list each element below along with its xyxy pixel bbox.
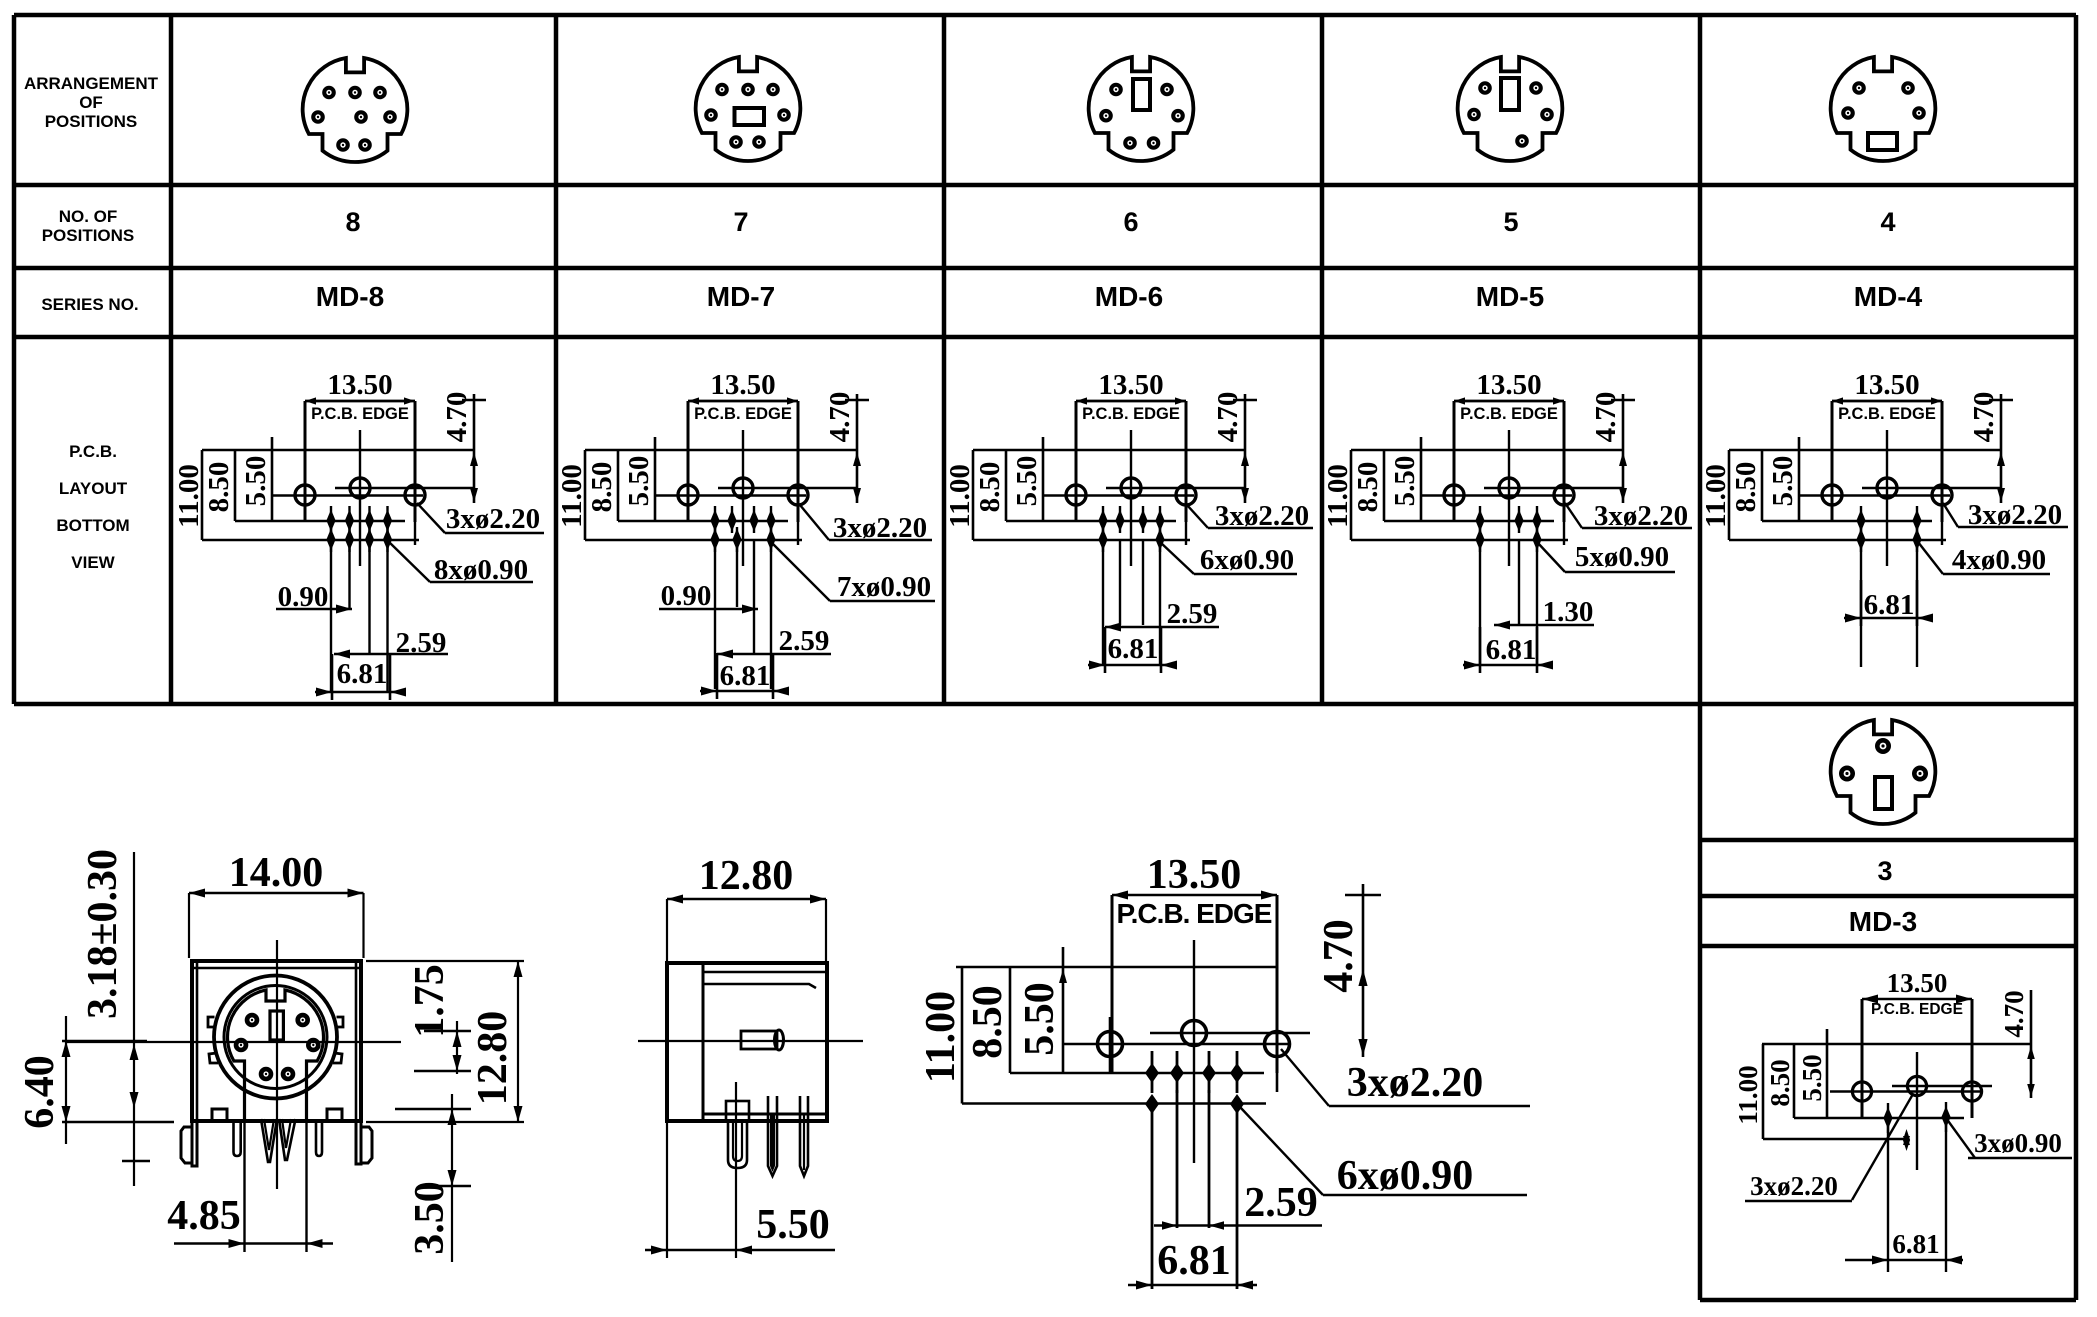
enlarged PCB layout: 6xØ0.90 label (1240, 1107, 1527, 1199)
MD-8 PCB layout: 4.70 dimension (441, 392, 486, 503)
svg-text:4.70: 4.70 (824, 392, 856, 443)
MD-6 PCB layout: P.C.B. EDGE box (1076, 401, 1186, 522)
MD-6 connector face (6-pin, vertical key) (1089, 57, 1194, 161)
MD-8 PCB layout: center axis (359, 430, 361, 566)
MD-5 PCB layout: center axis (1508, 430, 1510, 566)
MD-8 PCB layout: 8xØ0.90 label (389, 542, 533, 586)
MD-7 PCB layout: 3x mounting holes (656, 476, 857, 545)
MD-5 PCB layout: 1.30 dimension (1494, 596, 1594, 630)
no. of positions values (345, 207, 1895, 237)
enlarged PCB layout: 2.59 dimension (1154, 1180, 1322, 1230)
svg-text:8: 8 (345, 207, 360, 237)
svg-text:6.81: 6.81 (1486, 634, 1537, 666)
MD-5 PCB layout: top reference line (1351, 449, 1623, 452)
side view: axis line (638, 1040, 863, 1042)
MD-8 PCB layout: 13.50 dimension (305, 369, 415, 405)
front view: left solder pin (234, 1121, 241, 1156)
enlarged PCB layout: 6.81 dimension (1128, 1238, 1257, 1290)
MD-8 PCB layout: 11.00 dimension (173, 450, 419, 540)
svg-text:11.00: 11.00 (944, 464, 976, 528)
MD-4 PCB layout: 8.50 dimension (1730, 450, 1932, 521)
svg-text:12.80: 12.80 (470, 1011, 516, 1106)
svg-text:3xø0.90: 3xø0.90 (1974, 1128, 2062, 1158)
front view: center V pins (261, 1119, 296, 1162)
MD-5 PCB layout: 4.70 dimension (1590, 392, 1635, 503)
front view: 4.85 dimension (167, 1121, 333, 1252)
MD-6 PCB layout: 4.70 dimension (1212, 392, 1257, 503)
svg-text:6.81: 6.81 (720, 660, 771, 692)
MD-4 connector face (4-pin, bottom key slot) (1831, 57, 1936, 161)
front view: shield outer circle (214, 976, 337, 1099)
svg-text:P.C.B. EDGE: P.C.B. EDGE (1117, 898, 1272, 929)
MD-7 PCB layout: P.C.B. EDGE box (688, 401, 798, 522)
front view: bottom edge stubs (212, 1109, 342, 1121)
MD-5 PCB layout: 13.50 dimension (1454, 369, 1564, 405)
MD-6 PCB layout: 3x mounting holes (1044, 476, 1245, 545)
svg-text:11.00: 11.00 (1733, 1065, 1763, 1124)
svg-text:13.50: 13.50 (1887, 968, 1948, 998)
MD-6 PCB layout: top reference line (973, 449, 1245, 452)
svg-text:13.50: 13.50 (1147, 852, 1242, 898)
svg-text:2.59: 2.59 (779, 625, 830, 657)
MD-3 PCB layout: 13.50 dimension (1862, 968, 1972, 1004)
MD-3 PCB layout: pin holes (1883, 1102, 1950, 1272)
svg-text:MD-7: MD-7 (707, 281, 775, 312)
svg-text:3.18±0.30: 3.18±0.30 (80, 849, 126, 1019)
svg-text:POSITIONS: POSITIONS (45, 112, 138, 131)
svg-text:4.70: 4.70 (1968, 392, 2000, 443)
svg-text:13.50: 13.50 (327, 369, 392, 401)
MD-8 PCB layout: 0.90 dimension (276, 581, 352, 614)
front view: 12.80 dimension (366, 961, 524, 1122)
svg-text:8.50: 8.50 (974, 462, 1006, 513)
MD-6 PCB layout: center axis (1130, 430, 1132, 566)
svg-text:6xø0.90: 6xø0.90 (1337, 1153, 1474, 1199)
MD-5 PCB layout: 8.50 dimension (1352, 450, 1554, 521)
svg-text:MD-6: MD-6 (1095, 281, 1163, 312)
MD-6 PCB layout: 6.81 dimension (1088, 627, 1177, 673)
MD-8 PCB layout: pin holes (326, 506, 392, 692)
MD-5 PCB layout: 5xØ0.90 label (1537, 541, 1675, 573)
svg-text:12.80: 12.80 (699, 853, 794, 899)
MD-7 PCB layout: 11.00 dimension (556, 450, 802, 540)
svg-text:SERIES NO.: SERIES NO. (41, 295, 138, 314)
svg-text:3xø2.20: 3xø2.20 (1347, 1060, 1484, 1106)
svg-text:8.50: 8.50 (1765, 1059, 1795, 1106)
svg-text:6.81: 6.81 (1157, 1238, 1231, 1284)
svg-text:3: 3 (1877, 856, 1892, 886)
series no. values (316, 281, 1923, 312)
enlarged PCB layout: 3xØ2.20 label (1281, 1049, 1530, 1106)
front view: left mounting foot (181, 1121, 197, 1166)
svg-text:7: 7 (733, 207, 748, 237)
svg-text:8.50: 8.50 (203, 462, 235, 513)
MD-8 PCB layout: P.C.B. EDGE box (305, 401, 415, 522)
MD-3 PCB layout: 3xØ0.90 label (1946, 1118, 2072, 1158)
svg-text:8.50: 8.50 (586, 462, 618, 513)
MD-5 PCB layout: 3xØ2.20 label (1565, 500, 1692, 532)
MD-3 PCB layout: 5.50 dimension (1797, 1029, 1827, 1118)
svg-text:4.70: 4.70 (441, 392, 473, 443)
MD-6 PCB layout: pin holes (1098, 506, 1164, 665)
svg-text:5.50: 5.50 (1389, 456, 1421, 507)
MD-5 PCB layout: 6.81 dimension (1463, 627, 1553, 673)
MD-5 PCB layout: 3x mounting holes (1422, 476, 1623, 545)
svg-text:4.85: 4.85 (167, 1193, 241, 1239)
svg-text:ARRANGEMENT: ARRANGEMENT (24, 74, 159, 93)
header label P.C.B. LAYOUT BOTTOM VIEW (56, 442, 129, 572)
svg-text:6: 6 (1123, 207, 1138, 237)
svg-text:MD-3: MD-3 (1849, 906, 1917, 937)
svg-text:14.00: 14.00 (229, 850, 324, 896)
svg-text:5.50: 5.50 (1017, 982, 1063, 1056)
header label NO. OF POSITIONS (42, 207, 135, 245)
front view: right mounting foot (356, 1121, 372, 1164)
MD-8 connector face (8-pin) (303, 58, 408, 162)
MD-7 PCB layout: 2.59 dimension (717, 625, 831, 659)
MD-4 PCB layout: 5.50 dimension (1767, 437, 1799, 521)
svg-text:MD-5: MD-5 (1476, 281, 1544, 312)
enlarged PCB layout: 13.50 dimension (1112, 852, 1277, 900)
MD-7 PCB layout: 0.90 dimension (659, 580, 758, 614)
MD-7 PCB layout: center axis (742, 430, 744, 566)
front view: center axis cross (66, 940, 401, 1189)
header label ARRANGEMENT OF POSITIONS (24, 74, 159, 131)
svg-text:P.C.B. EDGE: P.C.B. EDGE (311, 405, 409, 423)
side view: solder pins (768, 1096, 808, 1176)
front view: connector body outline (192, 961, 361, 1121)
svg-text:4.70: 4.70 (1999, 990, 2029, 1037)
MD-7 PCB layout: 4.70 dimension (824, 392, 869, 503)
svg-text:6.81: 6.81 (1864, 589, 1915, 621)
svg-text:5.50: 5.50 (756, 1202, 830, 1248)
front view: shield inner circle (224, 986, 327, 1089)
MD-3 PCB layout: 3xØ2.20 label (1745, 1094, 1913, 1201)
MD-3 PCB layout: P.C.B. EDGE box (1862, 999, 1972, 1118)
svg-text:P.C.B.: P.C.B. (69, 442, 117, 461)
MD-4 PCB layout: pin holes (1856, 506, 1921, 667)
svg-text:8.50: 8.50 (1730, 462, 1762, 513)
svg-text:5.50: 5.50 (1011, 456, 1043, 507)
side view: body outline (667, 963, 827, 1121)
svg-text:LAYOUT: LAYOUT (59, 479, 128, 498)
MD-4 PCB layout: 3x mounting holes (1800, 476, 2001, 545)
MD-3 no. of positions value 3 (1877, 856, 1892, 886)
front view: 14.00 dimension (189, 850, 364, 958)
svg-text:6.81: 6.81 (337, 658, 388, 690)
svg-text:6.40: 6.40 (17, 1055, 63, 1129)
svg-text:6xø0.90: 6xø0.90 (1200, 544, 1294, 576)
MD-6 PCB layout: 2.59 dimension (1105, 598, 1219, 632)
MD-7 PCB layout: 7xØ0.90 label (771, 542, 935, 603)
front view: right solder pin (316, 1121, 322, 1156)
svg-text:P.C.B. EDGE: P.C.B. EDGE (1871, 1001, 1963, 1018)
svg-text:BOTTOM: BOTTOM (56, 516, 129, 535)
svg-text:13.50: 13.50 (710, 369, 775, 401)
MD-5 PCB layout: P.C.B. EDGE box (1454, 401, 1564, 522)
svg-text:4: 4 (1880, 207, 1895, 237)
svg-text:4xø0.90: 4xø0.90 (1952, 544, 2046, 576)
svg-text:P.C.B. EDGE: P.C.B. EDGE (1460, 405, 1558, 423)
enlarged PCB layout: pin holes (1145, 1051, 1244, 1289)
svg-text:4.70: 4.70 (1212, 392, 1244, 443)
svg-text:3.50: 3.50 (407, 1181, 453, 1255)
front view: mini-DIN face profile (227, 990, 323, 1119)
MD-7 PCB layout: 8.50 dimension (586, 450, 788, 521)
svg-text:1.75: 1.75 (407, 964, 453, 1038)
MD-5 PCB layout: 11.00 dimension (1322, 450, 1568, 540)
svg-text:MD-4: MD-4 (1854, 281, 1923, 312)
MD-5 PCB layout: 5.50 dimension (1389, 437, 1421, 521)
MD-6 PCB layout: 6xØ0.90 label (1160, 542, 1297, 576)
enlarged PCB layout: 8.50 dimension (965, 967, 1264, 1073)
MD-4 PCB layout: 11.00 dimension (1700, 450, 1946, 540)
svg-text:OF: OF (79, 93, 103, 112)
svg-text:13.50: 13.50 (1476, 369, 1541, 401)
MD-4 PCB layout: 6.81 dimension (1844, 580, 1933, 626)
svg-text:2.59: 2.59 (1244, 1180, 1318, 1226)
svg-text:13.50: 13.50 (1098, 369, 1163, 401)
MD-4 PCB layout: 4xØ0.90 label (1918, 542, 2050, 576)
enlarged PCB layout: 4.70 dimension (1316, 884, 1381, 1057)
MD-8 PCB layout: 5.50 dimension (240, 437, 272, 521)
svg-text:11.00: 11.00 (173, 464, 205, 528)
svg-text:POSITIONS: POSITIONS (42, 226, 135, 245)
svg-text:11.00: 11.00 (1700, 464, 1732, 528)
svg-text:2.59: 2.59 (1167, 598, 1218, 630)
front view: 3.50 dimension (395, 1094, 471, 1262)
MD-7 PCB layout: 3xØ2.20 label (800, 505, 932, 544)
svg-text:6.81: 6.81 (1108, 633, 1159, 665)
MD-3 PCB layout: 3x mounting holes (1830, 1074, 1992, 1110)
MD-7 PCB layout: pin holes (710, 506, 775, 689)
MD-5 PCB layout: pin holes (1475, 506, 1541, 665)
side view: shield pin (726, 1082, 749, 1188)
MD-7 connector face (7-pin, center key slot) (696, 57, 801, 161)
MD-4 PCB layout: top reference line (1729, 449, 2001, 452)
svg-text:6.81: 6.81 (1892, 1229, 1939, 1259)
svg-text:11.00: 11.00 (556, 464, 588, 528)
MD-3 series no. value (1849, 906, 1917, 937)
svg-text:5.50: 5.50 (623, 456, 655, 507)
MD-8 PCB layout: 6.81 dimension (315, 654, 406, 700)
svg-text:5.50: 5.50 (1767, 456, 1799, 507)
front view: 6.40 dimension (17, 1016, 174, 1144)
MD-8 PCB layout: 8.50 dimension (203, 450, 405, 521)
front view: 3.18±0.30 dimension (80, 849, 150, 1186)
MD-3 PCB layout: 11.00 dimension (1733, 1044, 1908, 1139)
MD-3 PCB layout: 4.70 dimension (1999, 990, 2035, 1098)
MD-8 PCB layout: 3xØ2.20 label (417, 503, 544, 535)
MD-4 PCB layout: center axis (1886, 430, 1888, 566)
MD-6 PCB layout: 13.50 dimension (1076, 369, 1186, 405)
MD-8 PCB layout: 3x mounting holes (273, 476, 474, 545)
MD-3 PCB layout: 8.50 dimension (1765, 1044, 1964, 1118)
MD-6 PCB layout: 11.00 dimension (944, 450, 1190, 540)
side view: 5.50 dimension (645, 1121, 835, 1258)
enlarged PCB layout: 3x mounting holes (1063, 1017, 1310, 1092)
svg-text:3xø2.20: 3xø2.20 (446, 503, 540, 535)
MD-5 connector face (5-pin, vertical key) (1458, 57, 1563, 161)
MD-3 PCB layout: top reference line (1762, 1043, 2031, 1046)
MD-4 PCB layout: P.C.B. EDGE box (1832, 401, 1942, 522)
svg-text:5.50: 5.50 (240, 456, 272, 507)
MD-8 PCB layout: top reference line (202, 449, 474, 452)
MD-6 PCB layout: 3xØ2.20 label (1187, 500, 1313, 532)
enlarged PCB layout: top reference line (956, 966, 1278, 969)
svg-text:7xø0.90: 7xø0.90 (837, 571, 931, 603)
MD-4 PCB layout: 4.70 dimension (1968, 392, 2013, 503)
side view: center contact (741, 1030, 784, 1050)
svg-text:P.C.B. EDGE: P.C.B. EDGE (1082, 405, 1180, 423)
svg-text:1.30: 1.30 (1543, 596, 1594, 628)
MD-7 PCB layout: 6.81 dimension (700, 653, 789, 699)
MD-6 PCB layout: 8.50 dimension (974, 450, 1176, 521)
enlarged PCB layout: 5.50 dimension (1017, 947, 1067, 1073)
front view: shield spring ears (208, 1017, 343, 1063)
MD-3 PCB layout: center axis (1916, 1052, 1918, 1170)
MD-4 PCB layout: 3xØ2.20 label (1943, 499, 2068, 531)
side view: 12.80 dimension (667, 853, 826, 961)
MD-7 PCB layout: top reference line (585, 449, 857, 452)
svg-text:0.90: 0.90 (661, 580, 712, 612)
svg-text:13.50: 13.50 (1854, 369, 1919, 401)
svg-text:8.50: 8.50 (1352, 462, 1384, 513)
svg-text:5.50: 5.50 (1797, 1054, 1827, 1101)
svg-text:MD-8: MD-8 (316, 281, 384, 312)
svg-text:4.70: 4.70 (1316, 919, 1362, 993)
MD-6 PCB layout: 5.50 dimension (1011, 437, 1043, 521)
svg-text:8.50: 8.50 (965, 985, 1011, 1059)
MD-4 PCB layout: 13.50 dimension (1832, 369, 1942, 405)
svg-text:5: 5 (1503, 207, 1518, 237)
header label SERIES NO. (41, 295, 138, 314)
svg-text:4.70: 4.70 (1590, 392, 1622, 443)
svg-text:VIEW: VIEW (71, 553, 115, 572)
svg-text:11.00: 11.00 (1322, 464, 1354, 528)
enlarged PCB layout: center axis (1193, 940, 1195, 1163)
MD-8 PCB layout: 2.59 dimension (334, 627, 448, 659)
svg-text:5xø0.90: 5xø0.90 (1575, 541, 1669, 573)
MD-7 PCB layout: 13.50 dimension (688, 369, 798, 405)
MD-3 PCB layout: 6.81 dimension (1845, 1229, 1963, 1265)
svg-text:NO. OF: NO. OF (59, 207, 118, 226)
enlarged PCB layout: 11.00 dimension (918, 967, 1266, 1104)
svg-text:P.C.B. EDGE: P.C.B. EDGE (1838, 405, 1936, 423)
MD-7 PCB layout: 5.50 dimension (623, 437, 655, 521)
MD-3 connector face (3-pin, bottom vertical key) (1831, 720, 1936, 824)
front view: 1.75 dimension (407, 964, 471, 1074)
svg-text:P.C.B. EDGE: P.C.B. EDGE (694, 405, 792, 423)
svg-text:3xø2.20: 3xø2.20 (1750, 1171, 1838, 1201)
svg-text:11.00: 11.00 (918, 991, 964, 1083)
enlarged PCB layout: P.C.B. EDGE box (1112, 895, 1277, 1073)
